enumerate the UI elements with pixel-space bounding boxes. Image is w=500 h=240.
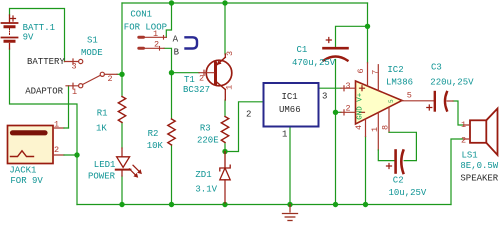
ground symbol (283, 205, 298, 221)
svg-text:1K: 1K (96, 123, 107, 133)
svg-text:R1: R1 (97, 109, 108, 119)
svg-text:POWER: POWER (88, 172, 116, 182)
wire IC1 pin1 to rail (289, 127, 291, 205)
wire bottom ground rail (77, 204, 451, 206)
svg-text:3: 3 (322, 92, 327, 102)
wire power drop to LM386 pin6 (367, 3, 369, 63)
svg-text:220E: 220E (197, 136, 219, 146)
LM386 pin8 to C2 (388, 107, 390, 132)
wire con1 column x=171.5 (164, 3, 172, 205)
wire R3 bottom to ZD1 junction (224, 143, 226, 152)
svg-text:LM386: LM386 (386, 77, 413, 87)
svg-text:C3: C3 (431, 62, 442, 72)
svg-text:1: 1 (54, 120, 59, 130)
svg-text:SPEAKER: SPEAKER (460, 173, 498, 183)
junction dot rail C1 column (333, 202, 338, 207)
LM386 pin1 to C2 (377, 113, 379, 150)
svg-text:R3: R3 (200, 123, 211, 133)
resistor R2 (168, 119, 175, 145)
svg-text:8: 8 (381, 125, 391, 130)
connector CON1 pin2 (139, 47, 164, 51)
junction dot jack pin2 (74, 152, 79, 157)
svg-text:3: 3 (225, 51, 235, 56)
svg-text:1: 1 (461, 120, 466, 130)
wire LM386 pin4 to rail (365, 137, 367, 205)
svg-text:4: 4 (354, 125, 364, 130)
svg-text:A: A (173, 34, 179, 44)
svg-text:9V: 9V (23, 33, 34, 43)
svg-text:LED1: LED1 (94, 160, 116, 170)
svg-text:3: 3 (346, 81, 351, 91)
LM386 pin6 (367, 63, 369, 86)
svg-text:2: 2 (461, 135, 466, 145)
svg-text:1: 1 (153, 29, 158, 39)
wire T1 collector to R3 (224, 100, 226, 117)
svg-text:220u,25V: 220u,25V (430, 77, 474, 87)
LM386 pin4 (365, 119, 367, 136)
plus minus inside (360, 86, 365, 113)
capacitor C3 (427, 92, 453, 111)
svg-text:MODE: MODE (81, 48, 103, 58)
IC1 UM66 box (264, 83, 319, 127)
switch S1 pin1 (66, 83, 83, 88)
svg-text:5: 5 (388, 99, 395, 103)
junction dot switch out (119, 72, 124, 77)
svg-text:5: 5 (407, 91, 412, 101)
svg-text:JACK1: JACK1 (9, 166, 36, 176)
svg-text:LS1: LS1 (462, 151, 478, 161)
wire ZD1 junction to IC1 pin2 (225, 102, 264, 152)
wire C1 branch top (336, 26, 368, 47)
svg-text:FOR 9V: FOR 9V (10, 176, 43, 186)
junction dot rail pin4 (363, 202, 368, 207)
junction dot LM386 pin2 (333, 110, 338, 115)
wire battery minus down-right-down (10, 49, 78, 205)
junction dot T1 base (169, 70, 174, 75)
svg-text:ADAPTOR: ADAPTOR (25, 87, 63, 97)
svg-text:IC2: IC2 (387, 65, 403, 75)
svg-text:S1: S1 (87, 36, 98, 46)
svg-text:CON1: CON1 (130, 10, 152, 20)
svg-text:C1: C1 (297, 45, 308, 55)
svg-text:FOR LOOP: FOR LOOP (124, 23, 167, 33)
junction dot rail LED (119, 202, 124, 207)
wire T1 emitter column from top rail (224, 3, 226, 54)
wire battery plus loop (10, 9, 65, 62)
svg-text:1: 1 (72, 87, 77, 97)
transistor T1 (199, 54, 232, 100)
junction dot top rail T1 (222, 0, 227, 5)
wire top power rail (122, 2, 368, 4)
svg-text:2: 2 (108, 74, 113, 84)
svg-text:6: 6 (356, 68, 366, 73)
junction dot rail IC1 (287, 202, 292, 207)
svg-text:UM66: UM66 (279, 105, 301, 115)
svg-text:8E,0.5W: 8E,0.5W (460, 161, 498, 171)
svg-text:R2: R2 (148, 129, 159, 139)
svg-text:1: 1 (225, 85, 235, 90)
svg-text:1: 1 (370, 127, 380, 132)
svg-text:BC327: BC327 (183, 85, 210, 95)
resistor R3 (221, 117, 228, 143)
svg-text:2: 2 (246, 110, 251, 120)
wire C1 bottom to pin2 junction to rail (335, 60, 337, 205)
svg-text:3: 3 (72, 62, 77, 72)
svg-text:BATTERY: BATTERY (27, 57, 65, 67)
junction dot R3 ZD1 (222, 149, 227, 154)
svg-text:1: 1 (282, 130, 287, 140)
connector CON1 pin1 (139, 36, 167, 40)
wire adaptor column to jack pin1 (68, 86, 70, 128)
switch S1 pin3 (65, 59, 83, 64)
svg-text:IC1: IC1 (282, 92, 298, 102)
capacitor C2 (387, 151, 404, 174)
op-amp IC2 LM386 triangle (356, 81, 403, 124)
junction dot rail ZD1 (222, 202, 227, 207)
svg-text:GND V+: GND V+ (356, 92, 364, 120)
svg-text:10K: 10K (147, 141, 164, 151)
LM386 pin7 stub (377, 65, 379, 91)
wire switch pin2 to junction (117, 73, 122, 75)
wire main column x=122 switch to R1 to LED to rail (121, 3, 123, 205)
switch S1 pin2 and lever (83, 72, 117, 84)
svg-text:470u,25V: 470u,25V (292, 58, 336, 68)
svg-text:C2: C2 (393, 175, 404, 185)
svg-text:T1: T1 (184, 75, 195, 85)
svg-text:ZD1: ZD1 (195, 170, 211, 180)
svg-text:2: 2 (346, 103, 351, 113)
wire IC1 pin3 to LM386 pin3 (319, 87, 342, 89)
jack JACK1 (8, 126, 78, 164)
wire speaker pin2 to rail (451, 139, 464, 205)
LM386 pin5 output (402, 100, 434, 102)
svg-text:2: 2 (199, 74, 204, 84)
wire C3 to speaker pin1 (453, 101, 464, 125)
wire LM386 pin2 from junction (336, 111, 342, 113)
junction dot top rail con1 (169, 0, 174, 5)
capacitor C1 (324, 38, 348, 61)
speaker LS1 (464, 109, 498, 156)
svg-text:BATT.1: BATT.1 (23, 23, 55, 33)
loop bracket A-B (186, 37, 198, 48)
svg-text:10u,25V: 10u,25V (389, 188, 427, 198)
svg-text:3.1V: 3.1V (195, 184, 217, 194)
zener ZD1 (220, 152, 230, 204)
battery BATT.1 (2, 15, 18, 49)
junction dot rail R2 (169, 202, 174, 207)
LM386 pin2 (341, 110, 356, 115)
LED1 (116, 148, 142, 178)
junction dot C1 power (365, 24, 370, 29)
svg-text:7: 7 (371, 70, 381, 75)
LM386 pin3 (341, 86, 356, 91)
wire T1 base from junction (172, 72, 200, 74)
resistor R1 (118, 97, 125, 123)
svg-text:2: 2 (54, 145, 59, 155)
svg-text:2: 2 (154, 40, 159, 50)
svg-text:B: B (174, 48, 180, 58)
